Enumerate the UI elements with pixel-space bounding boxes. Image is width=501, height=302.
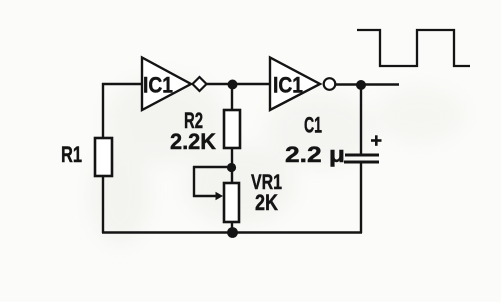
op-amp U2 inverter IC1 (second) xyxy=(270,58,335,111)
square wave output symbol xyxy=(357,30,470,66)
junction dot on bottom rail xyxy=(227,227,238,238)
svg-text:IC1: IC1 xyxy=(143,73,173,98)
wire node A down to R2 xyxy=(231,84,233,111)
wire R1 bottom to ground rail xyxy=(102,176,104,233)
wire IC1a output to IC1b input xyxy=(206,83,271,85)
bubble (diamond) of first inverter xyxy=(193,77,207,91)
resistor R1 xyxy=(95,138,112,176)
capacitor C1 bottom plate xyxy=(344,161,379,164)
wire VR1 bottom to rail xyxy=(231,222,233,233)
wire bottom rail xyxy=(102,231,362,234)
node A junction dot xyxy=(228,80,238,90)
wire input horizontal to IC1a xyxy=(102,83,143,85)
wire wiper loop right with arrow xyxy=(193,195,216,197)
resistor R2 xyxy=(224,110,240,148)
svg-text:R1: R1 xyxy=(61,142,82,167)
svg-text:IC1: IC1 xyxy=(273,73,303,98)
bubble (circle) of second inverter xyxy=(324,78,336,90)
arrow head of wiper xyxy=(216,192,224,200)
plus polarity mark xyxy=(371,135,382,146)
wire wiper loop down xyxy=(193,166,195,197)
node C junction dot xyxy=(356,80,366,90)
wire left vertical down to R1 xyxy=(102,83,104,139)
svg-text:2K: 2K xyxy=(255,190,278,215)
svg-text:C1: C1 xyxy=(304,113,322,138)
wire wiper loop left xyxy=(193,166,232,168)
capacitor C1 top plate xyxy=(345,154,379,157)
potentiometer VR1 xyxy=(224,183,239,222)
svg-text:2.2K: 2.2K xyxy=(170,129,216,154)
wire R2 bottom to wiper node xyxy=(231,148,233,184)
op-amp U1 inverter IC1 (first) xyxy=(142,58,207,111)
node B junction dot (wiper tie) xyxy=(227,163,236,172)
wire IC1b output to open end xyxy=(335,83,399,85)
wire node C down to C1 xyxy=(360,85,362,154)
wire C1 bottom to rail xyxy=(360,163,362,233)
svg-text:2.2 μ: 2.2 μ xyxy=(285,142,345,167)
